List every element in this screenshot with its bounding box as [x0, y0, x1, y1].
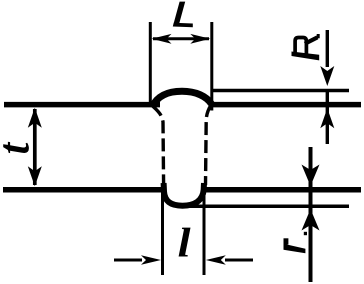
- thin line at weld top level (R reference): [211, 89, 349, 93]
- label L: [173, 2, 193, 28]
- top plate surface line, right segment: [211, 102, 361, 108]
- dimension L: left arrowhead: [152, 34, 172, 44]
- dimension t: lower arrowhead (down): [28, 166, 42, 186]
- dimension R: lower arrowhead (up): [320, 108, 334, 128]
- dimension l: right extension line: [203, 186, 206, 275]
- weld bead bottom outline (U shape): [164, 183, 204, 206]
- weld nugget left side (hidden, dashed): [153, 106, 164, 185]
- dimension r: lower arrowhead (up): [302, 209, 320, 231]
- dimension l: left extension line: [161, 186, 164, 275]
- label r: [284, 232, 308, 253]
- dimension r: upper arrowhead (down): [302, 165, 320, 187]
- dimension R: vertical line lower part: [326, 90, 329, 144]
- dimension L: dimension line: [153, 37, 209, 40]
- top plate surface line, left segment: [4, 102, 160, 108]
- thin line at weld bottom level (r reference): [184, 205, 349, 209]
- label l: [179, 228, 191, 257]
- dimension L: right arrowhead: [190, 34, 210, 44]
- dimension l: left arrowhead (right): [141, 255, 161, 264]
- label R: [292, 34, 320, 60]
- dimension t: upper arrowhead (up): [28, 108, 42, 128]
- weld bead top cap outline: [152, 91, 212, 107]
- label t: [3, 142, 29, 153]
- dimension r: vertical line: [309, 147, 313, 282]
- dimension R: upper arrowhead (down): [320, 66, 334, 86]
- bottom plate surface line, left segment: [3, 187, 163, 193]
- dimension L: left extension line: [149, 22, 152, 107]
- dimension R: vertical line upper part: [326, 30, 329, 67]
- bottom plate surface line, right segment: [202, 187, 361, 193]
- dimension t: vertical line: [33, 109, 37, 185]
- dimension l: left arrow shaft: [114, 259, 142, 262]
- dimension l: right arrow shaft: [225, 259, 253, 262]
- dimension L: right extension line: [210, 22, 213, 111]
- weld nugget right side (hidden, dashed): [206, 105, 212, 185]
- dimension l: right arrowhead (left): [206, 255, 226, 264]
